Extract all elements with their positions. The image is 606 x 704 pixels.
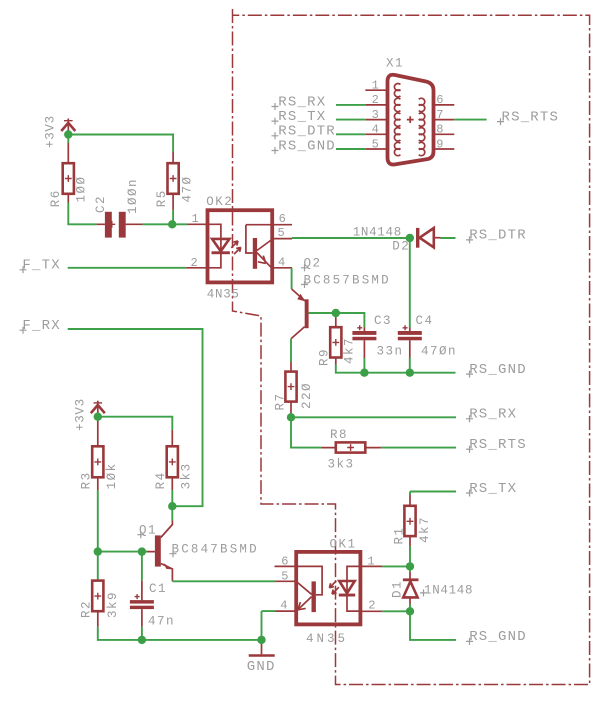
svg-text:47n: 47n <box>148 615 175 629</box>
svg-text:6: 6 <box>436 93 443 107</box>
svg-text:C2: C2 <box>94 195 108 213</box>
svg-text:RS_GND: RS_GND <box>469 629 527 645</box>
svg-text:RS_RTS: RS_RTS <box>502 109 560 125</box>
svg-text:R9: R9 <box>318 348 332 366</box>
svg-text:OK2: OK2 <box>206 195 233 209</box>
svg-text:1N4148: 1N4148 <box>424 584 473 598</box>
svg-text:C4: C4 <box>416 314 434 328</box>
svg-text:C3: C3 <box>374 314 392 328</box>
svg-text:1: 1 <box>192 212 199 226</box>
svg-text:OK1: OK1 <box>330 537 357 551</box>
svg-text:1N4148: 1N4148 <box>353 225 402 239</box>
svg-text:3: 3 <box>372 108 379 122</box>
svg-text:+3V3: +3V3 <box>43 115 57 148</box>
svg-text:7: 7 <box>436 108 443 122</box>
svg-text:R2: R2 <box>80 600 94 618</box>
svg-text:BC847BSMD: BC847BSMD <box>172 543 259 557</box>
svg-text:+3V3: +3V3 <box>73 398 87 431</box>
svg-text:5: 5 <box>278 226 285 240</box>
svg-text:RS_TX: RS_TX <box>469 481 517 497</box>
svg-text:Q1: Q1 <box>139 524 157 538</box>
svg-text:Q2: Q2 <box>304 257 322 271</box>
svg-text:R4: R4 <box>154 471 168 489</box>
svg-text:8: 8 <box>436 123 443 137</box>
svg-text:9: 9 <box>436 137 443 151</box>
svg-text:GND: GND <box>247 659 276 675</box>
svg-text:RS_DTR: RS_DTR <box>469 228 527 244</box>
svg-text:4N35: 4N35 <box>306 632 348 646</box>
svg-text:RS_RX: RS_RX <box>469 407 517 423</box>
svg-text:4N35: 4N35 <box>207 288 240 302</box>
svg-text:R3: R3 <box>80 471 94 489</box>
svg-text:D1: D1 <box>391 580 405 598</box>
svg-text:1ØØn: 1ØØn <box>126 178 140 214</box>
svg-text:C1: C1 <box>149 582 167 596</box>
svg-text:2: 2 <box>372 93 379 107</box>
svg-text:2: 2 <box>191 256 198 270</box>
svg-text:RS_TX: RS_TX <box>278 109 326 125</box>
svg-text:RS_RX: RS_RX <box>278 94 326 110</box>
svg-text:RS_GND: RS_GND <box>469 362 527 378</box>
svg-text:3k3: 3k3 <box>328 457 355 471</box>
svg-text:RS_DTR: RS_DTR <box>278 124 336 140</box>
svg-text:6: 6 <box>279 212 286 226</box>
svg-text:BC857BSMD: BC857BSMD <box>304 273 391 287</box>
svg-text:R8: R8 <box>330 428 348 442</box>
svg-text:RS_GND: RS_GND <box>278 138 336 154</box>
svg-text:33n: 33n <box>377 344 404 358</box>
svg-text:5: 5 <box>372 137 379 151</box>
svg-text:3k3: 3k3 <box>180 462 194 489</box>
svg-text:R1: R1 <box>393 526 407 544</box>
svg-text:22Ø: 22Ø <box>300 382 314 409</box>
svg-text:3k9: 3k9 <box>106 591 120 618</box>
svg-text:RS_RTS: RS_RTS <box>469 437 527 453</box>
svg-text:1: 1 <box>372 79 379 93</box>
svg-text:6: 6 <box>281 555 288 569</box>
svg-text:4k7: 4k7 <box>418 516 432 543</box>
svg-text:F_RX: F_RX <box>22 318 60 334</box>
svg-text:X1: X1 <box>386 56 404 70</box>
svg-text:4: 4 <box>372 123 379 137</box>
svg-text:2: 2 <box>368 599 375 613</box>
svg-text:4: 4 <box>278 256 285 270</box>
svg-text:47Ø: 47Ø <box>181 175 195 202</box>
svg-text:R6: R6 <box>49 189 63 207</box>
svg-text:R7: R7 <box>274 392 288 410</box>
svg-text:4k7: 4k7 <box>343 337 357 364</box>
svg-text:F_TX: F_TX <box>22 258 60 274</box>
svg-text:1Øk: 1Øk <box>105 462 119 489</box>
svg-text:1: 1 <box>367 555 374 569</box>
svg-text:47Øn: 47Øn <box>421 344 457 358</box>
svg-text:R5: R5 <box>155 189 169 207</box>
svg-text:5: 5 <box>281 569 288 583</box>
svg-text:4: 4 <box>280 599 287 613</box>
svg-text:1ØØ: 1ØØ <box>75 175 89 202</box>
